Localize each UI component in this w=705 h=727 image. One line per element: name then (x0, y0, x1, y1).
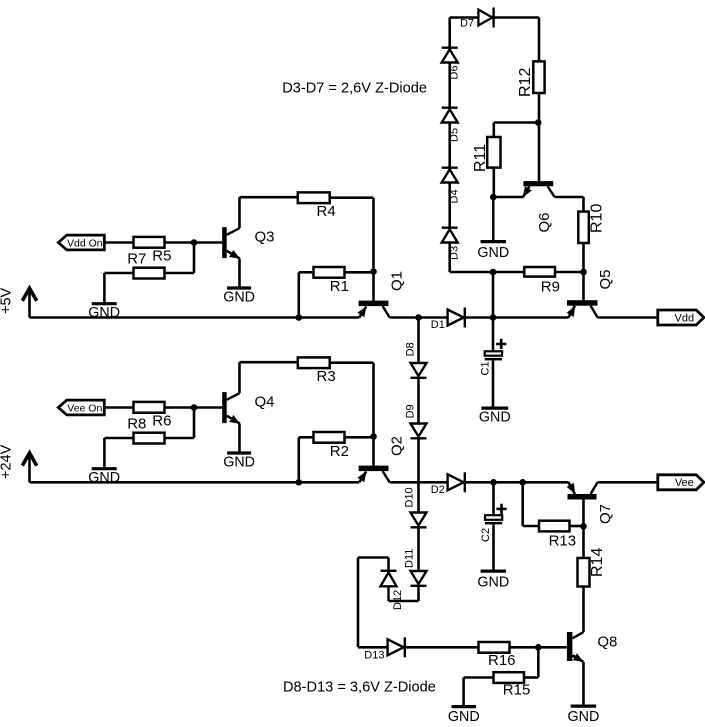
flag Vee (658, 475, 704, 490)
svg-text:D8-D13 = 3,6V Z-Diode: D8-D13 = 3,6V Z-Diode (283, 680, 436, 696)
svg-text:R5: R5 (152, 248, 171, 265)
svg-text:R3: R3 (317, 368, 336, 385)
svg-text:R11: R11 (472, 144, 489, 172)
diode D11 (411, 571, 427, 584)
svg-text:GND: GND (223, 290, 255, 306)
wire D12 top to D13 (387, 558, 390, 571)
svg-text:GND: GND (477, 575, 509, 591)
wire top-left corner down to D6 (448, 18, 451, 48)
svg-text:R7: R7 (127, 250, 146, 267)
wire R11 to node G (492, 168, 495, 197)
transistor Q6 (523, 181, 553, 186)
svg-text:Vdd On: Vdd On (67, 237, 103, 249)
wire R8 to Q4 base (165, 406, 223, 409)
wire Q4 collector to R3 (238, 362, 241, 393)
wire D11 bottom to D12 bottom (417, 586, 420, 601)
junction node A (191, 239, 198, 246)
wire D13 to R16 (405, 646, 479, 649)
junction node J (R13 branch) (519, 479, 526, 486)
junction node C (415, 314, 422, 321)
svg-text:R14: R14 (589, 548, 606, 577)
wire C1 to GND (492, 360, 495, 408)
diode D4 (442, 166, 458, 168)
wire node B2 to Q2 base (372, 437, 375, 466)
svg-text:GND: GND (568, 709, 600, 725)
resistor R10 (578, 212, 589, 243)
ground GND1 (92, 302, 117, 305)
wire node I to C2 (492, 482, 495, 514)
svg-text:D10: D10 (404, 487, 416, 507)
svg-text:Q1: Q1 (389, 271, 406, 291)
svg-text:Vee: Vee (675, 477, 694, 489)
resistor R1 (314, 267, 345, 278)
diode D3 (442, 226, 458, 228)
transistor Q2 (359, 466, 389, 472)
diode D9 (411, 424, 427, 437)
svg-text:Q2: Q2 (389, 436, 406, 456)
ground GND5 (92, 467, 117, 470)
svg-text:Q8: Q8 (597, 633, 617, 650)
svg-text:D3-D7 = 2,6V Z-Diode: D3-D7 = 2,6V Z-Diode (282, 81, 427, 97)
svg-text:Q6: Q6 (536, 212, 553, 232)
wire node J to Q7 emitter (523, 481, 569, 484)
resistor R13 (539, 521, 570, 532)
diode D5 (442, 106, 458, 108)
wire node A down to R5 (193, 243, 196, 274)
junction node H (580, 269, 587, 276)
diode D7 (478, 10, 492, 26)
svg-text:Vdd: Vdd (675, 312, 695, 324)
svg-text:R1: R1 (330, 278, 349, 295)
transistor Q7 (568, 494, 597, 500)
svg-text:R13: R13 (549, 532, 577, 549)
wire node C to D8 (417, 318, 420, 364)
wire R10 to node H (582, 243, 585, 272)
wire node I to node J (494, 481, 523, 484)
resistor R9 (524, 267, 555, 277)
svg-text:R10: R10 (589, 204, 606, 233)
junction node B2 (R3/R2/Q2 base) (370, 433, 377, 440)
junction on +24V rail (296, 479, 303, 486)
wire node D to C1 (492, 318, 495, 352)
wire D10 to D11 (417, 527, 420, 571)
wire node K to Q8 base (538, 646, 567, 649)
wire D4 to D3 (448, 183, 451, 228)
svg-text:Q5: Q5 (597, 269, 614, 289)
wire node K down to R15 (537, 647, 540, 677)
wire R5 to GND (104, 272, 133, 275)
svg-text:GND: GND (88, 305, 120, 321)
svg-text:D8: D8 (404, 342, 416, 356)
wire node B to Q1 base (372, 272, 375, 301)
resistor R3 (298, 357, 330, 368)
svg-text:R8: R8 (127, 415, 146, 432)
junction node K (535, 644, 542, 651)
wire D9 to D10 (crosses Q2 output wire) (417, 438, 420, 512)
diode D8 (411, 363, 427, 376)
resistor R15 (494, 672, 525, 683)
wire D3 to node E (448, 243, 451, 273)
wire Q7 collector to Vee flag (598, 481, 658, 484)
wire node H to Q5 base (582, 272, 585, 300)
junction node F (R11 branch) (535, 119, 542, 126)
wire Q5 collector to Vdd flag (598, 316, 658, 319)
wire Q8 collector to R14 (582, 587, 585, 633)
flag Vee On (58, 400, 104, 415)
diode D6 (442, 47, 458, 49)
wire D2 to node D2n (465, 481, 494, 484)
wire node F to R11 (494, 121, 538, 124)
svg-text:D12: D12 (392, 590, 404, 610)
wire C2 to GND (492, 524, 495, 571)
resistor R4 (298, 192, 330, 203)
svg-text:GND: GND (448, 709, 480, 725)
wire R14 to node L (582, 526, 585, 558)
wire +24V rail (30, 481, 360, 484)
wire R13 right to node L (570, 525, 584, 528)
svg-text:R9: R9 (541, 278, 560, 295)
net +24V input arrow (28, 454, 31, 483)
wire Q6 emitter to node G (493, 196, 523, 199)
wire Q1 collector to node C (390, 316, 419, 319)
wire D8 to D9 (417, 378, 420, 424)
svg-text:Q3: Q3 (255, 229, 275, 246)
wire Vdd On to R7 (104, 241, 133, 244)
wire D1 to node D (465, 316, 493, 319)
wire R9 to node H (555, 271, 584, 274)
svg-text:GND: GND (223, 455, 255, 471)
resistor R12 (533, 61, 544, 93)
svg-text:R4: R4 (317, 203, 336, 220)
junction node B (R4/R1/Q1 base) (370, 268, 377, 275)
wire D6 to D5 (448, 63, 451, 108)
svg-text:R12: R12 (517, 68, 534, 97)
resistor R14 (578, 558, 590, 587)
resistor R2 (314, 432, 345, 443)
wire R1 left to +5V rail (299, 271, 314, 274)
ground GND4 (above, stem down) (492, 197, 494, 242)
wire Q6 collector to R10 (555, 196, 584, 199)
wire node D to Q5 emitter (493, 316, 569, 319)
wire node E down to node D (492, 272, 495, 318)
resistor R7 (134, 237, 165, 248)
wire Q8 emitter to GND (582, 662, 585, 706)
junction node D (490, 314, 497, 321)
wire top loop (450, 16, 479, 19)
ground GND7 (481, 569, 507, 572)
ground GND9 (571, 704, 597, 707)
wire Q2 collector to D2 (crosses diode chain) (390, 481, 448, 484)
wire node A2 down to R6 (193, 408, 196, 439)
svg-text:D1: D1 (431, 319, 445, 331)
junction node I (490, 479, 497, 486)
wire node C to D1 (419, 316, 448, 319)
net +5V input arrow (28, 289, 31, 318)
wire R6 to GND (104, 437, 133, 440)
svg-text:C2: C2 (480, 528, 492, 542)
junction node G (490, 194, 497, 201)
wire Q3 emitter to GND (238, 259, 241, 289)
svg-text:GND: GND (479, 410, 511, 426)
wire R15 to GND (464, 676, 494, 679)
ground GND2 (227, 286, 251, 289)
svg-text:R6: R6 (152, 413, 171, 430)
svg-text:+5V: +5V (0, 287, 15, 314)
wire Vee On to R8 (104, 406, 133, 409)
wire R12 to Q6 collector node (538, 93, 541, 181)
wire R3 to node B2 (330, 361, 374, 364)
transistor Q5 (567, 300, 598, 306)
svg-text:D11: D11 (404, 549, 416, 568)
svg-text:D9: D9 (404, 404, 416, 418)
wire +5V rail (30, 316, 360, 319)
svg-text:+24V: +24V (0, 444, 15, 479)
diode D10 (411, 513, 427, 526)
svg-text:R16: R16 (488, 652, 516, 669)
wire D5 to D4 (448, 123, 451, 168)
diode D12 (pointing up) (387, 586, 389, 601)
junction node L (Q7 base / R13 / R14) (580, 523, 587, 530)
wire node E to R9 (493, 271, 524, 274)
capacitor C1 (485, 351, 502, 355)
wire R1 right to node B (345, 271, 374, 274)
wire R16 to node K (510, 646, 539, 649)
diode D2 (448, 474, 464, 490)
wire R7 to Q3 base (165, 241, 223, 244)
wire R4 to R1 node (330, 196, 374, 199)
svg-text:D7: D7 (460, 18, 474, 30)
svg-text:Q4: Q4 (255, 394, 275, 411)
resistor R6 (134, 433, 165, 444)
transistor Q3 (222, 227, 227, 258)
svg-text:D2: D2 (431, 484, 445, 496)
resistor R11 (487, 137, 500, 168)
resistor R16 (479, 642, 510, 653)
wire Q7 base to node L (582, 500, 585, 527)
wire Q4 emitter to GND (238, 424, 241, 454)
diode D1 (448, 310, 464, 326)
ground GND8 (452, 705, 477, 708)
resistor R5 (134, 268, 165, 279)
resistor R8 (134, 402, 165, 413)
wire R2 left to +24V rail (299, 436, 314, 439)
transistor Q8 (567, 632, 573, 661)
wire R13 left up to node J (523, 525, 539, 528)
svg-text:R15: R15 (503, 682, 531, 699)
flag Vdd On (58, 235, 104, 250)
wire D7 to R12 top (494, 16, 539, 19)
ground GND6 (227, 451, 251, 454)
wire R2 right to node B2 (345, 436, 374, 439)
flag Vdd (658, 310, 704, 325)
junction on +5V rail (296, 314, 303, 321)
junction node E (490, 269, 497, 276)
junction node A2 (191, 404, 198, 411)
transistor Q4 (222, 392, 227, 423)
ground GND3 (481, 407, 508, 410)
svg-text:D13: D13 (364, 650, 384, 662)
transistor Q1 (359, 301, 389, 307)
svg-text:GND: GND (88, 470, 120, 486)
svg-text:Q7: Q7 (597, 504, 614, 524)
diode D13 (388, 639, 404, 655)
capacitor C2 (485, 515, 502, 520)
svg-text:C1: C1 (480, 361, 492, 375)
svg-text:GND: GND (477, 245, 509, 261)
svg-text:Vee On: Vee On (67, 402, 102, 414)
wire Q3 collector to R4 (238, 197, 241, 228)
svg-text:R2: R2 (330, 443, 349, 460)
